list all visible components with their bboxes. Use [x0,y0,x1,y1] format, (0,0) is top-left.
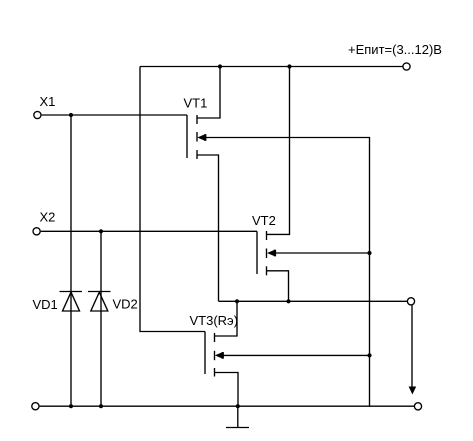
node rail/VT2 drain junction [287,64,291,68]
wire VT2 substrate [275,252,370,254]
wire VT1 drain to rail [197,67,220,119]
terminal X1 [34,111,41,118]
terminal +E [403,63,410,70]
node VT2 source junction [286,299,290,303]
wire X1 branch to VD1 [70,115,72,406]
power rail +E [140,66,403,68]
wire VT2 drain to rail [267,67,290,235]
transistor VT1 [187,115,206,159]
wire VT3 drain to output rail [215,301,238,336]
wire VT3 source to ground rail [215,373,239,407]
node VT2 substrate junction [367,251,371,255]
transistor VT2 [257,231,276,275]
diode VD1 [60,292,83,312]
node X1/VD1 junction [69,113,73,117]
wire rail to VT3 gate [140,67,205,332]
wire VT1 source to output rail [197,155,219,301]
ground [226,406,249,427]
svg-text:X1: X1 [40,94,56,109]
wire VT1 substrate bus [206,138,370,407]
svg-text:VD1: VD1 [33,297,58,312]
svg-text:VT3(Rэ): VT3(Rэ) [190,313,239,328]
wire X1 to VT1 gate [42,114,187,116]
svg-text:VT1: VT1 [184,96,208,111]
transistor VT3 [205,332,224,377]
node X2/VD2 junction [99,229,103,233]
node VT3 source/rail junction [236,404,240,408]
node rail/VT1 drain junction [218,64,222,68]
current arrow output [409,305,417,394]
terminal output [407,298,414,305]
node VD1/rail junction [69,404,73,408]
svg-text:X2: X2 [40,210,56,225]
wire X2 branch to VD2 [100,231,102,406]
node VT3 drain junction [235,299,239,303]
wire VT2 source to output rail [267,271,289,302]
diode VD2 [88,292,111,312]
terminal bottom-left [32,403,39,410]
svg-text:VT2: VT2 [252,213,276,228]
svg-text:VD2: VD2 [113,297,138,312]
node VD2/rail junction [99,404,103,408]
wire X2 to VT2 gate [41,230,257,232]
terminal bottom-right [414,403,421,410]
output rail [219,300,408,302]
node VT3 substrate junction [367,353,371,357]
terminal X2 [33,228,40,235]
wire VT3 substrate [223,354,370,356]
svg-text:+Eпит=(3...12)В: +Eпит=(3...12)В [348,42,442,57]
bottom rail [40,405,415,407]
